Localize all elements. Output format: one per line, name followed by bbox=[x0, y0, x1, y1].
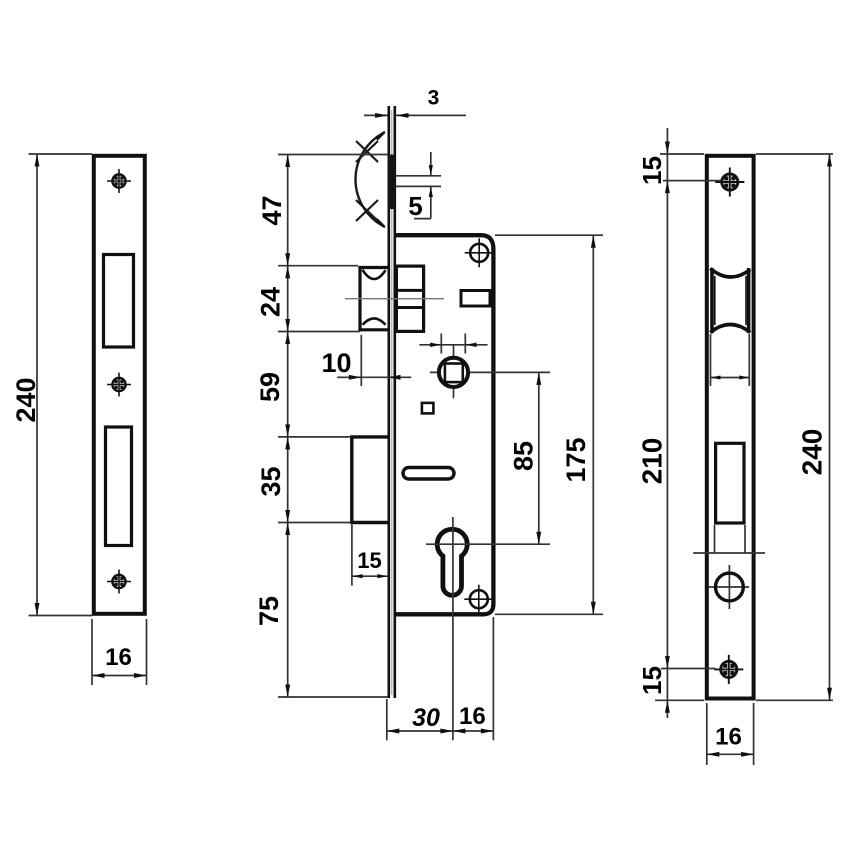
svg-text:15: 15 bbox=[637, 156, 667, 185]
svg-text:175: 175 bbox=[561, 437, 591, 482]
svg-text:15: 15 bbox=[357, 548, 381, 573]
svg-text:59: 59 bbox=[255, 372, 285, 402]
svg-text:10: 10 bbox=[321, 348, 351, 378]
svg-text:240: 240 bbox=[797, 429, 828, 476]
svg-text:240: 240 bbox=[11, 377, 41, 422]
svg-text:85: 85 bbox=[509, 441, 539, 471]
svg-text:24: 24 bbox=[256, 287, 286, 317]
svg-text:3: 3 bbox=[428, 87, 440, 110]
svg-text:75: 75 bbox=[254, 596, 284, 626]
svg-text:16: 16 bbox=[459, 703, 486, 730]
svg-text:30: 30 bbox=[412, 704, 440, 732]
svg-text:210: 210 bbox=[637, 438, 668, 485]
svg-text:16: 16 bbox=[105, 644, 132, 671]
svg-text:16: 16 bbox=[715, 724, 742, 751]
svg-text:5: 5 bbox=[408, 191, 422, 221]
svg-text:15: 15 bbox=[637, 666, 667, 695]
svg-text:47: 47 bbox=[257, 195, 287, 225]
svg-text:35: 35 bbox=[256, 466, 286, 496]
